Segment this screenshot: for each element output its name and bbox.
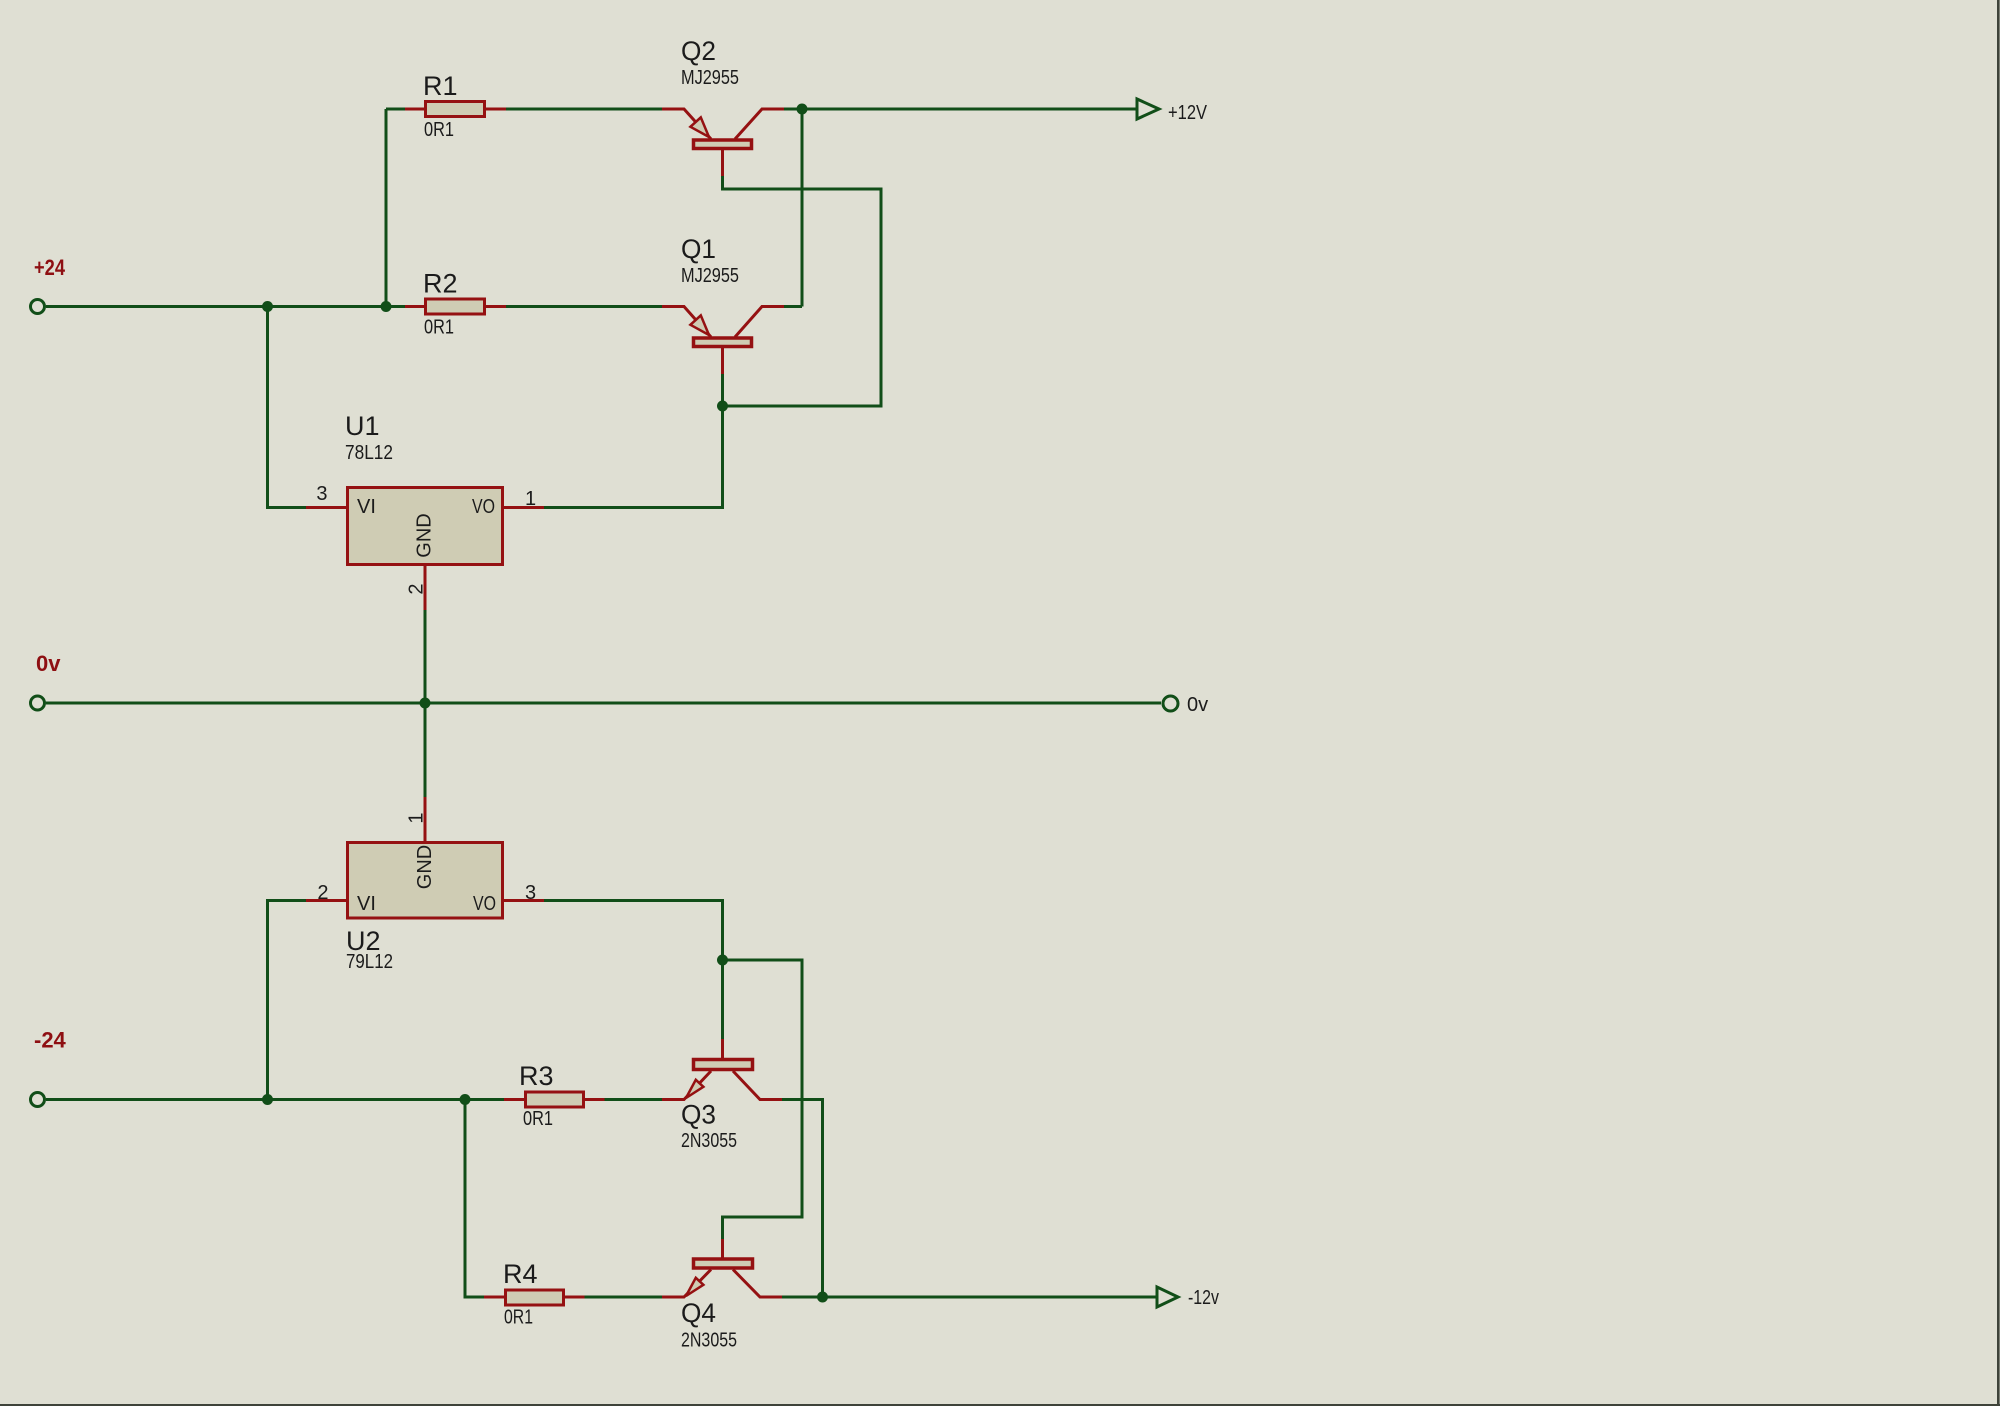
svg-text:2N3055: 2N3055 [681, 1130, 737, 1152]
svg-text:R3: R3 [519, 1061, 554, 1091]
svg-text:1: 1 [525, 488, 536, 510]
svg-text:0R1: 0R1 [424, 119, 454, 141]
svg-text:2: 2 [406, 583, 428, 594]
svg-text:Q2: Q2 [681, 36, 716, 66]
svg-text:Q4: Q4 [681, 1298, 716, 1328]
svg-text:GND: GND [414, 845, 436, 889]
svg-text:MJ2955: MJ2955 [681, 67, 739, 89]
svg-text:R2: R2 [423, 269, 458, 299]
svg-text:R4: R4 [503, 1259, 538, 1289]
svg-text:2: 2 [317, 882, 328, 904]
svg-text:78L12: 78L12 [345, 442, 393, 464]
svg-text:+12V: +12V [1168, 102, 1208, 124]
svg-text:0v: 0v [36, 651, 61, 676]
svg-text:0R1: 0R1 [424, 317, 454, 339]
svg-text:0R1: 0R1 [504, 1307, 533, 1329]
svg-text:0v: 0v [1187, 694, 1208, 716]
svg-text:1: 1 [406, 812, 428, 823]
svg-text:3: 3 [316, 483, 327, 505]
svg-text:2N3055: 2N3055 [681, 1330, 737, 1352]
svg-text:VO: VO [473, 893, 496, 915]
svg-text:GND: GND [414, 513, 436, 557]
svg-text:0R1: 0R1 [523, 1108, 553, 1130]
svg-text:-12v: -12v [1188, 1287, 1219, 1309]
svg-text:Q1: Q1 [681, 234, 716, 264]
svg-text:MJ2955: MJ2955 [681, 265, 739, 287]
svg-text:R1: R1 [423, 71, 458, 101]
svg-text:3: 3 [525, 882, 536, 904]
svg-text:VI: VI [357, 496, 376, 518]
svg-text:-24: -24 [34, 1028, 67, 1053]
svg-text:Q3: Q3 [681, 1100, 716, 1130]
svg-text:+24: +24 [34, 255, 66, 280]
svg-text:79L12: 79L12 [346, 951, 393, 973]
svg-text:VI: VI [357, 893, 376, 915]
svg-text:U1: U1 [345, 411, 380, 441]
svg-text:VO: VO [472, 496, 495, 518]
